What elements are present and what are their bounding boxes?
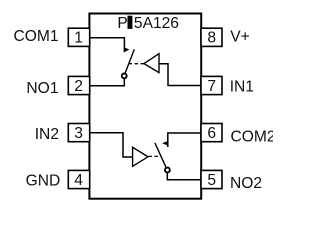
svg-text:V+: V+ xyxy=(230,28,250,45)
wire IN1 from pin 7 to inverter U2 input xyxy=(159,64,201,86)
svg-text:P: P xyxy=(117,15,127,32)
control dashed line to S2 arm xyxy=(149,155,159,157)
pin 6 box xyxy=(201,124,222,142)
wire IN2 from pin 3 to buffer U3 input xyxy=(89,133,132,157)
buffer U3 (switch S2 driver) xyxy=(133,147,148,166)
svg-text:6: 6 xyxy=(207,125,216,142)
wire COM1 from pin 1 to switch S1 pole xyxy=(89,38,124,52)
svg-text:5A126: 5A126 xyxy=(134,15,179,32)
svg-text:IN1: IN1 xyxy=(230,79,254,96)
svg-text:IN2: IN2 xyxy=(35,126,59,143)
pin 8 box xyxy=(201,28,222,46)
wire NO1 from S1 contact to pin 2 xyxy=(89,78,124,85)
switch S2 pole arrowhead xyxy=(162,141,168,146)
wire COM2 from pin 6 to switch S2 pole xyxy=(168,133,201,147)
pin 1 box xyxy=(68,28,89,46)
svg-text:8: 8 xyxy=(207,30,216,47)
pin 4 box xyxy=(68,170,89,188)
IC body U1 (PI5A126 outline) xyxy=(89,14,201,199)
switch S1 NO contact circle xyxy=(122,73,127,78)
svg-text:COM2: COM2 xyxy=(231,128,274,145)
inverter U2 (switch S1 driver) xyxy=(144,54,159,73)
svg-text:7: 7 xyxy=(207,78,216,95)
svg-text:4: 4 xyxy=(74,172,83,189)
svg-text:5: 5 xyxy=(207,172,216,189)
control dashed line to S1 arm xyxy=(130,63,144,65)
svg-text:1: 1 xyxy=(74,30,83,47)
svg-text:GND: GND xyxy=(26,173,61,190)
switch S2 arm xyxy=(155,143,166,168)
label PI5A126 Pericom bar "I" xyxy=(128,16,133,29)
svg-text:NO2: NO2 xyxy=(230,175,262,192)
svg-text:COM1: COM1 xyxy=(13,28,58,45)
switch S2 NO contact circle xyxy=(165,168,170,173)
pin 5 box xyxy=(201,170,222,188)
pin 2 box xyxy=(68,76,89,94)
svg-text:2: 2 xyxy=(74,78,83,95)
pin 3 box xyxy=(68,124,89,142)
switch S1 arm xyxy=(125,49,134,73)
pin 7 box xyxy=(201,76,222,94)
svg-text:3: 3 xyxy=(74,125,83,142)
svg-text:NO1: NO1 xyxy=(26,80,58,97)
wire NO2 from S2 contact to pin 5 xyxy=(167,173,201,180)
switch S1 pole arrowhead xyxy=(124,47,129,52)
